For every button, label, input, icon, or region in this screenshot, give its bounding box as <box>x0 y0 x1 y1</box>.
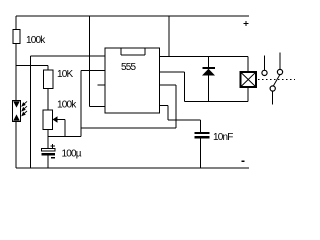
wire reset column x=30.5 <box>30 56 32 168</box>
wire diode top lead <box>208 57 210 68</box>
IC notch bottom <box>121 54 145 56</box>
wire supply drop x=89.5 from rail to pin 8 <box>89 16 91 107</box>
wire pin 5 run to 10nF <box>168 119 201 121</box>
wire node A down to LDR <box>15 66 17 102</box>
wire pot wiper tail <box>56 119 65 121</box>
relay coil K1 box <box>241 72 257 87</box>
supply plus marking <box>244 21 249 26</box>
IC notch right side <box>144 48 146 55</box>
wire 555 left bottom pin <box>90 106 106 108</box>
resistor R1 100k body <box>13 30 20 44</box>
switch fixed contact right stub <box>279 53 281 70</box>
diode D1 cathode bar <box>203 67 216 69</box>
svg-text:555: 555 <box>121 62 137 73</box>
wire rail drop to pin 8 x=169 <box>168 16 170 57</box>
LDR top triangle <box>13 101 20 107</box>
wire cap 100u top lead <box>47 137 49 150</box>
wire pot wiper drop <box>64 120 66 137</box>
potentiometer 100k body <box>43 110 53 130</box>
node A wire to 10K <box>16 65 48 67</box>
wire 10nF top lead <box>200 120 202 132</box>
wire long node line to pin 7 <box>81 127 176 129</box>
wire 555 left pin stub <box>98 84 106 86</box>
resistor 10K body <box>44 70 54 89</box>
wire top supply rail <box>16 15 249 17</box>
capacitor C2 10nF top plate <box>195 132 210 134</box>
wire W1 to 555 left pin 4 <box>31 55 106 57</box>
wire pin 7 drop x=176 <box>175 85 177 128</box>
switch lever <box>273 75 280 86</box>
pot wiper arrow head <box>53 116 58 123</box>
wire 10K top lead <box>47 66 49 71</box>
relay coil K1 X diagonal 2 <box>241 72 257 87</box>
svg-text:10K: 10K <box>57 69 74 80</box>
wire 555 output pin 3 <box>160 71 185 73</box>
LDR body box <box>13 101 21 122</box>
LDR light arrow 3 <box>22 111 27 116</box>
op-amp U1 555 body <box>105 48 160 113</box>
wire 555 left pin 2 <box>81 70 105 72</box>
switch fixed contact left stub <box>264 56 266 71</box>
svg-text:100k: 100k <box>57 100 77 111</box>
wire 555 right pin 8-4 to supply <box>160 56 249 58</box>
wire 10K bottom lead to pot <box>47 89 49 111</box>
wire relay bottom lead <box>247 87 249 102</box>
svg-text:10nF: 10nF <box>213 132 233 143</box>
switch fixed contact left circle <box>262 70 267 75</box>
wire node B riser x=81 <box>80 71 82 137</box>
switch fixed contact right circle <box>277 69 282 74</box>
capacitor C1 100u top plate (hollow) <box>42 149 56 152</box>
wire relay top lead <box>247 57 249 73</box>
wire cap 100u bottom lead <box>47 155 49 168</box>
wire R1 top lead <box>15 16 17 30</box>
minus supply marking <box>241 160 244 162</box>
wire 10nF bottom lead <box>200 138 202 168</box>
wire diode bottom lead <box>208 76 210 102</box>
switch pole bottom stub <box>272 91 274 104</box>
wire output drop x=184.5 <box>184 72 186 102</box>
diode D1 triangle <box>202 69 215 76</box>
switch pole circle <box>270 86 275 91</box>
wire pin 5 drop x=168 <box>167 106 169 121</box>
LDR light arrow 1 <box>22 101 27 106</box>
wire output bottom run <box>185 101 249 103</box>
wire bottom ground rail <box>16 167 249 169</box>
wire node B horizontal <box>48 136 81 138</box>
wire 555 pin 7 stub <box>160 84 177 86</box>
capacitor C2 10nF bottom plate <box>195 136 210 138</box>
svg-text:100µ: 100µ <box>62 149 82 160</box>
relay coil K1 X diagonal 1 <box>241 72 257 87</box>
wire pot bottom lead <box>47 130 49 137</box>
capacitor C1 minus sign <box>51 157 55 159</box>
wire R1 bottom lead to node A <box>15 44 17 67</box>
LDR light arrow 2 <box>22 106 27 111</box>
capacitor C1 100u bottom plate (solid) <box>42 153 56 156</box>
svg-text:100k: 100k <box>26 35 46 46</box>
LDR bottom triangle <box>13 114 20 120</box>
relay actuation dotted link <box>258 78 295 80</box>
wire LDR bottom lead <box>15 122 17 169</box>
wire 555 pin 5 stub <box>160 105 169 107</box>
IC notch left side <box>120 48 122 55</box>
capacitor C1 plus sign <box>51 144 56 148</box>
